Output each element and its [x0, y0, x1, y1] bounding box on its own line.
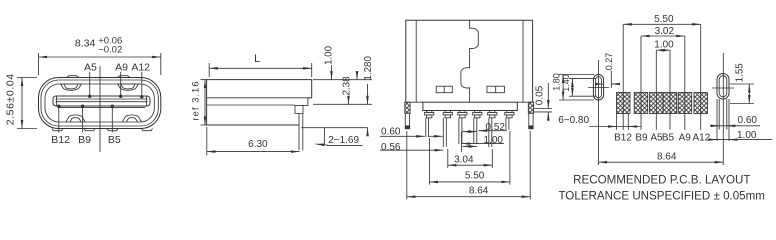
pad B9 [634, 93, 648, 114]
svg-text:A5: A5 [84, 62, 97, 74]
dim 2-1.69 [301, 127, 367, 129]
svg-text:6.30: 6.30 [248, 139, 268, 150]
leader A12 [141, 72, 143, 97]
svg-text:0.52: 0.52 [486, 122, 506, 133]
pin 1 legs [426, 118, 429, 137]
bottom latch left [66, 115, 85, 122]
top latch left [61, 84, 82, 90]
leader 6-0.80 [589, 126, 641, 128]
top latch right [118, 84, 139, 90]
stitch left [436, 86, 452, 93]
right oval slot lines [717, 99, 729, 141]
svg-text:1.55: 1.55 [735, 63, 746, 83]
tongue contact line 2 [56, 101, 148, 103]
outer shell [39, 78, 161, 129]
center seam zigzag [461, 20, 478, 102]
svg-text:A12: A12 [693, 132, 711, 143]
right oval centerline v [722, 53, 724, 165]
pin head 6 [505, 111, 514, 118]
leader A5 [89, 72, 91, 97]
tongue [53, 96, 150, 106]
svg-text:1.280: 1.280 [363, 55, 374, 80]
pin head 2 [443, 111, 452, 118]
svg-text:1.00: 1.00 [654, 40, 674, 51]
svg-text:B5: B5 [662, 132, 675, 143]
svg-text:5.50: 5.50 [465, 171, 485, 182]
pin 6 legs [506, 118, 509, 130]
svg-text:B9: B9 [635, 132, 648, 143]
seam line 2 [207, 104, 295, 106]
svg-text:RECOMMENDED P.C.B. LAYOUT: RECOMMENDED P.C.B. LAYOUT [573, 174, 750, 187]
pin head 3 [458, 111, 467, 118]
pad centerline 3 [655, 50, 657, 130]
svg-text:2−1.69: 2−1.69 [328, 135, 359, 146]
svg-text:8.34: 8.34 [75, 38, 96, 50]
tongue end tick right [146, 96, 148, 106]
pad centerline 1 [622, 24, 624, 130]
svg-text:2.38: 2.38 [342, 76, 353, 96]
svg-text:B5: B5 [108, 134, 121, 146]
pad B5 [663, 93, 677, 114]
leader B12 [58, 106, 60, 132]
svg-text:−0.02: −0.02 [98, 45, 122, 56]
svg-text:B12: B12 [614, 132, 632, 143]
pad A5 [650, 93, 664, 114]
svg-text:0.56: 0.56 [381, 142, 401, 153]
pin head 1 [425, 111, 434, 118]
pad centerline 6 [700, 24, 702, 130]
tongue lower shadow line [58, 107, 145, 109]
svg-text:0.05: 0.05 [535, 85, 546, 105]
svg-text:5.50: 5.50 [654, 14, 674, 25]
svg-text:A12: A12 [131, 62, 150, 74]
pad1 edge ticks [615, 114, 617, 130]
pad centerline 5 [684, 36, 686, 130]
leader B5 [111, 106, 113, 132]
top outer bump left [67, 76, 80, 78]
left oval centerline h [588, 87, 609, 89]
tongue contact line 1 [56, 98, 148, 100]
left oval centerline v [598, 60, 600, 165]
shell inner opening [45, 84, 154, 122]
stitch right [487, 86, 504, 93]
right oval centerline h [712, 87, 734, 89]
inner wall right [522, 20, 524, 102]
pin head 4 [473, 111, 482, 118]
svg-text:B12: B12 [51, 134, 70, 146]
svg-text:A9: A9 [115, 62, 128, 74]
svg-text:3.02: 3.02 [655, 26, 675, 37]
svg-text:ref 3.16: ref 3.16 [191, 80, 202, 120]
leader A9 [120, 72, 122, 97]
rear step [295, 98, 312, 114]
pin 3 legs [459, 118, 462, 144]
svg-text:1.00: 1.00 [324, 45, 335, 65]
svg-text:0.60: 0.60 [738, 115, 758, 126]
svg-text:8.64: 8.64 [469, 185, 489, 196]
svg-text:0.27: 0.27 [604, 53, 614, 71]
rear leg [295, 114, 303, 151]
svg-text:3.04: 3.04 [454, 155, 474, 166]
left shell leg hatched [405, 102, 410, 113]
svg-text:A9: A9 [679, 132, 692, 143]
pad centerline 2 [640, 36, 642, 130]
right oval pad [717, 74, 729, 100]
svg-text:L: L [254, 53, 260, 65]
svg-text:1.40: 1.40 [561, 74, 571, 92]
pad B12 [617, 93, 631, 114]
pad centerline 4 [669, 50, 671, 130]
centerline [99, 66, 101, 152]
seam line 1 [207, 97, 312, 99]
pin head 5 [488, 111, 497, 118]
top outer bump right [118, 76, 131, 78]
svg-text:1.00: 1.00 [484, 135, 504, 146]
shell second outline [41, 80, 158, 126]
tongue end tick left [56, 96, 58, 106]
bottom outer foot 4 [142, 129, 153, 131]
pad A9 [678, 93, 692, 114]
bottom outer foot 1 [52, 129, 63, 131]
body outline [207, 80, 312, 125]
svg-text:B9: B9 [78, 134, 91, 146]
right shell leg hatched [528, 102, 533, 113]
bottom outer foot 2 [84, 129, 95, 131]
shell bottom edge segments [406, 101, 423, 103]
pin 2 legs [443, 118, 446, 147]
base flange [423, 102, 517, 110]
svg-text:8.64: 8.64 [657, 151, 677, 162]
svg-text:0.60: 0.60 [381, 126, 401, 137]
left oval pad [593, 75, 603, 101]
pin 5 legs [489, 118, 492, 147]
shell rect [406, 20, 533, 102]
leader B9 [82, 106, 84, 132]
svg-text:6−0.80: 6−0.80 [558, 115, 589, 126]
svg-text:TOLERANCE UNSPECIFIED ± 0.05mm: TOLERANCE UNSPECIFIED ± 0.05mm [558, 189, 765, 202]
bottom outer foot 3 [107, 129, 118, 131]
bottom latch right [122, 115, 141, 122]
pin 4 legs [474, 118, 477, 144]
inner wall left [415, 20, 417, 102]
svg-text:2.56±0.04: 2.56±0.04 [4, 73, 16, 125]
pad A12 [694, 93, 708, 114]
